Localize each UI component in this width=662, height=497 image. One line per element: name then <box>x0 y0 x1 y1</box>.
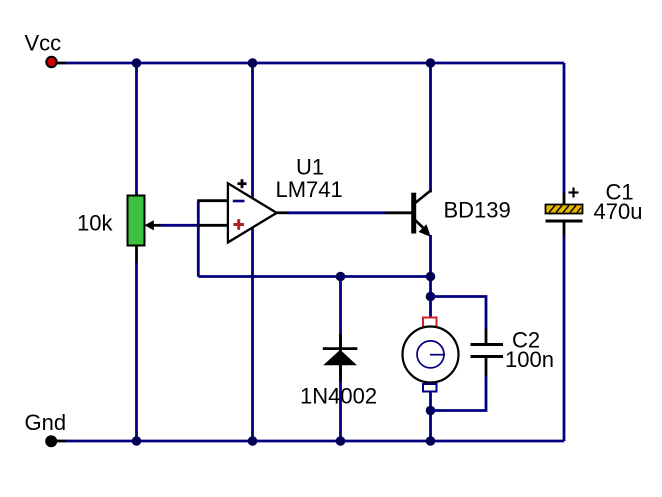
node bottom rail motor junction <box>426 436 436 446</box>
wire C1 column lower <box>563 221 566 442</box>
node C2 bottom tap <box>426 406 436 416</box>
motor M1 <box>403 318 459 392</box>
wire non-inverting input <box>160 224 229 227</box>
svg-text:Gnd: Gnd <box>25 410 67 435</box>
wire emitter column <box>429 235 432 318</box>
node top rail op-amp junction <box>248 58 258 68</box>
svg-text:U1: U1 <box>296 155 324 180</box>
node Gnd terminal <box>45 435 57 447</box>
transistor Q1 BD139 <box>411 190 431 237</box>
capacitor C2 plates <box>471 345 504 357</box>
wire Vcc rail top <box>57 62 564 65</box>
svg-text:10k: 10k <box>77 211 113 236</box>
capacitor C1 plus marker <box>569 188 579 198</box>
node top rail pot junction <box>132 58 142 68</box>
svg-text:BD139: BD139 <box>444 197 511 222</box>
wire C1 column upper <box>563 63 566 205</box>
wire op-amp output to base <box>277 211 412 214</box>
node C2 top tap <box>426 292 436 302</box>
capacitor C1 electrolytic top plate <box>546 205 583 214</box>
wire inverting pin stub <box>197 199 228 202</box>
potentiometer wiper arrow <box>145 220 154 230</box>
wire C2 branch top <box>431 297 487 331</box>
potentiometer R1 10k body <box>128 196 145 246</box>
svg-text:470u: 470u <box>594 199 643 224</box>
svg-text:100n: 100n <box>505 347 554 372</box>
wire C2 branch bottom <box>485 356 488 378</box>
op-amp U1 triangle <box>228 183 277 242</box>
node bottom rail pot junction <box>132 436 142 446</box>
wire op-amp supply column <box>251 63 254 441</box>
capacitor C1 bottom plate <box>546 220 583 223</box>
wire pot column upper <box>135 63 138 197</box>
wire pot column lower <box>135 244 138 441</box>
wire Gnd rail bottom <box>57 440 564 443</box>
svg-text:1N4002: 1N4002 <box>300 384 377 409</box>
node emitter/feedback junction <box>426 272 436 282</box>
op-amp non-inverting plus marker <box>233 219 244 230</box>
op-amp V+ plus marker <box>238 179 247 188</box>
diode D1 1N4002 <box>323 349 358 366</box>
node diode top junction <box>336 272 346 282</box>
wire motor bottom to rail <box>429 392 432 442</box>
wire collector column <box>429 63 432 193</box>
node bottom rail op-amp junction <box>248 436 258 446</box>
wire diode column <box>339 277 342 442</box>
svg-text:Vcc: Vcc <box>25 30 62 55</box>
node Vcc terminal <box>46 57 56 67</box>
node top rail collector junction <box>426 58 436 68</box>
node bottom rail diode junction <box>336 436 346 446</box>
svg-text:LM741: LM741 <box>276 177 343 202</box>
op-amp inverting minus marker <box>233 200 245 203</box>
wire inverting-input loop <box>198 201 430 277</box>
